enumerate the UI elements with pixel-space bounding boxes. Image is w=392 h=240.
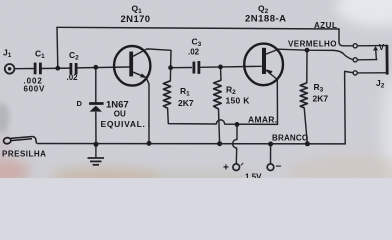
battery minus terminal xyxy=(267,164,274,171)
transistor Q2 xyxy=(244,44,283,86)
svg-text:V: V xyxy=(379,43,385,52)
svg-text:.02: .02 xyxy=(188,48,200,57)
wire: C1 to C2 through junction xyxy=(41,67,71,69)
node battery minus on rail xyxy=(268,142,273,147)
capacitor C1 xyxy=(35,63,40,75)
capacitor C2 xyxy=(71,63,76,74)
node VERMELHO / R3 xyxy=(305,48,310,53)
jack J2 bottom contact xyxy=(353,71,386,75)
wire: rail corner up to jack bottom contact xyxy=(345,71,354,143)
svg-text:VERMELHO: VERMELHO xyxy=(288,39,337,48)
node C1-C2 junction xyxy=(55,66,60,71)
wire: R3 top lead from VERMELHO node xyxy=(306,50,308,83)
svg-text:150 K: 150 K xyxy=(226,96,251,106)
svg-text:D: D xyxy=(77,99,83,108)
wire: Q2 emitter down to supply line xyxy=(266,71,277,125)
node Q1 collector / C3 / R1 xyxy=(168,65,173,70)
battery plus terminal xyxy=(233,164,240,171)
svg-text:−: − xyxy=(276,162,282,173)
resistor R3 xyxy=(300,83,307,108)
svg-text:BRANCO: BRANCO xyxy=(272,133,308,142)
node diode/ground on rail xyxy=(94,142,99,147)
resistor R1 xyxy=(163,81,170,108)
svg-text:1,5V: 1,5V xyxy=(245,173,262,179)
node C3 / R2 / Q2 base xyxy=(218,65,223,70)
wire: left vertical drop from top rail to main line xyxy=(56,27,59,68)
presilha clip xyxy=(3,137,36,145)
stray mark near battery plus xyxy=(241,163,244,166)
jack J2 top contact xyxy=(353,44,386,48)
node R2 on rail xyxy=(217,141,222,146)
wire: C3 node to C3 left plate xyxy=(171,67,192,69)
wire: R1 top lead xyxy=(169,68,171,81)
wire: C2 to Q1 base through diode junction xyxy=(76,66,129,69)
wire: battery minus lead xyxy=(270,144,272,164)
svg-text:600V: 600V xyxy=(24,85,45,94)
svg-text:+: + xyxy=(223,163,229,174)
wire: diode to ground rail xyxy=(95,112,97,144)
node diode/base junction xyxy=(93,65,98,70)
svg-text:AMAR.: AMAR. xyxy=(248,114,277,124)
wire: Q1 collector up-over to C3 node xyxy=(134,49,171,68)
capacitor C3 xyxy=(194,61,199,74)
node Q1 emitter on rail xyxy=(147,141,152,146)
wire: R2 top lead xyxy=(220,67,223,80)
jack J2 middle contact with switch arrow xyxy=(353,46,378,62)
transistor Q1 xyxy=(114,46,150,86)
svg-text:2K7: 2K7 xyxy=(313,94,329,104)
wire: AZUL drop into jack top contact xyxy=(339,29,353,46)
node R3 on rail xyxy=(305,141,310,146)
wire: Q2 collector to VERMELHO line xyxy=(266,49,333,54)
svg-text:2N188-A: 2N188-A xyxy=(245,14,287,25)
svg-text:OU: OU xyxy=(114,110,126,119)
jack J2 body bar xyxy=(385,45,388,75)
resistor R2 xyxy=(214,80,222,109)
wire: VERMELHO curve into jack middle contact xyxy=(334,50,354,59)
wire: battery plus lead with hop over ground rail xyxy=(233,124,237,163)
wire: diode branch down from main line xyxy=(95,67,97,103)
wire: R1 bottom lead and supply line with hop over R2 wire xyxy=(168,108,278,124)
wire: R3 bottom lead to ground rail xyxy=(304,108,307,144)
wire: bottom ground rail xyxy=(37,143,345,145)
wire: top rail from C1/C2 junction drop to AZUL corner xyxy=(57,27,339,29)
svg-text:.02: .02 xyxy=(67,73,79,82)
svg-text:2K7: 2K7 xyxy=(178,98,194,108)
wire: Q1 emitter down to ground rail xyxy=(134,72,149,143)
svg-text:AZUL: AZUL xyxy=(314,21,337,30)
ground xyxy=(88,144,105,165)
svg-text:PRESILHA: PRESILHA xyxy=(2,150,46,159)
wire: J1 to C1 xyxy=(14,68,35,70)
wire: C3 to Q2 base through R2 junction xyxy=(201,66,262,67)
svg-text:EQUIVAL.: EQUIVAL. xyxy=(101,119,146,129)
J1 input jack xyxy=(5,64,15,74)
svg-text:2N170: 2N170 xyxy=(121,14,151,25)
wire: R2 bottom lead down to ground rail xyxy=(219,109,220,144)
diode D 1N67 xyxy=(89,104,104,112)
node battery plus / supply xyxy=(235,122,240,127)
